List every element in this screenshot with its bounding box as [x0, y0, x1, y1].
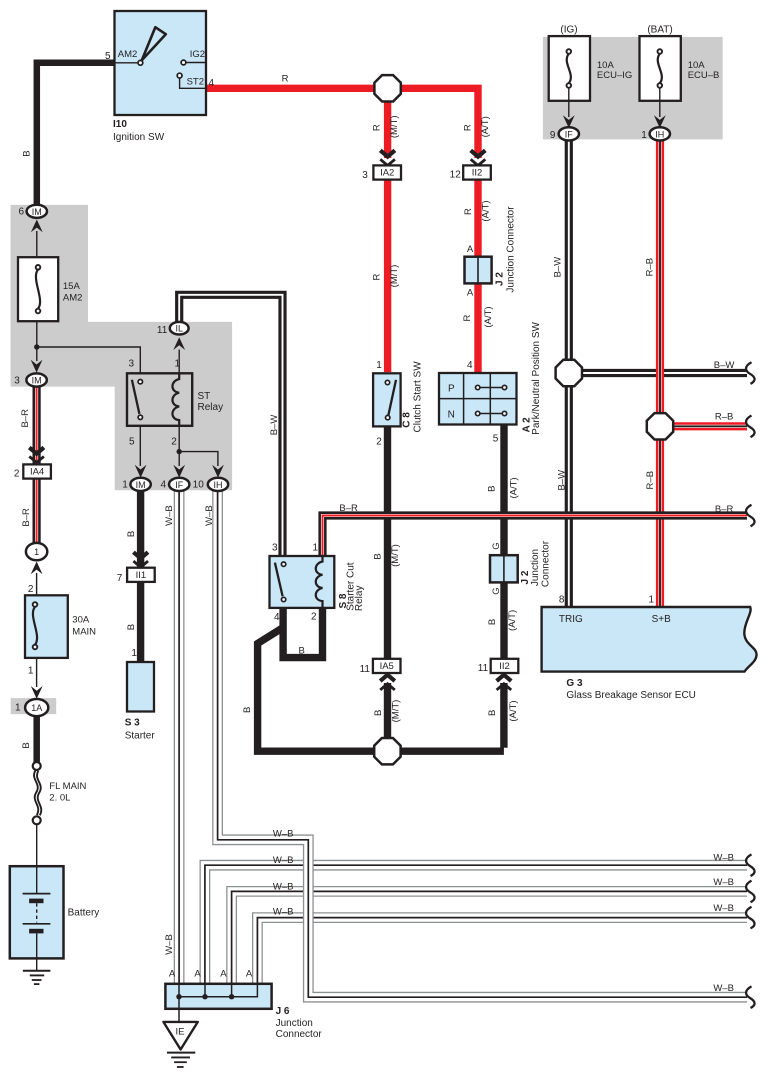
wire label R M/T upper	[372, 115, 400, 138]
svg-text:5: 5	[129, 436, 135, 447]
wire R J2 upper to A2 pin 4	[474, 283, 481, 372]
fuse 10A ECU-B element	[658, 49, 663, 88]
svg-text:MAIN: MAIN	[72, 626, 96, 637]
svg-text:R: R	[462, 314, 473, 321]
svg-text:3: 3	[272, 543, 278, 554]
chevron arrows from II2 lower	[497, 675, 512, 690]
arrow into IH1	[654, 115, 666, 128]
wire B-R IM3 to IA4	[32, 386, 40, 466]
svg-text:2. 0L: 2. 0L	[49, 793, 70, 804]
svg-text:(M/T): (M/T)	[391, 700, 402, 723]
svg-text:R: R	[463, 208, 474, 215]
svg-text:IM: IM	[32, 376, 42, 386]
wire label B (IM1)	[126, 531, 137, 537]
arrow into connector 1	[31, 562, 43, 575]
S8 relay coil	[316, 556, 323, 608]
wire B IM1 to II1	[137, 489, 144, 568]
battery ground lead	[36, 958, 38, 970]
svg-text:B–W: B–W	[269, 415, 280, 436]
svg-text:C 8: C 8	[402, 412, 413, 428]
break symbol W-B 3	[746, 907, 755, 929]
label S8	[338, 562, 365, 611]
text ST2	[187, 77, 204, 88]
svg-text:1: 1	[648, 594, 654, 605]
text S+B	[652, 614, 672, 625]
connector circle 1	[26, 543, 47, 560]
break symbol B-W	[746, 362, 755, 384]
svg-text:4: 4	[160, 479, 166, 490]
svg-text:N: N	[448, 409, 455, 420]
node ST relay pin 2 branch	[177, 449, 182, 454]
svg-text:10: 10	[193, 479, 205, 490]
pin label 5 (I10 AM2)	[105, 51, 111, 62]
wire 15A AM2 fuse feed (IM6 to fuse)	[36, 231, 38, 258]
svg-text:ECU–B: ECU–B	[688, 70, 720, 81]
wire B from I10 AM2 to IM6	[37, 63, 116, 204]
pin label 1 (IM)	[122, 479, 128, 490]
svg-text:(M/T): (M/T)	[389, 115, 400, 138]
ST relay switch contact top	[138, 380, 142, 384]
chevron arrows into IA2	[380, 150, 395, 165]
I10 switch lever	[142, 27, 166, 60]
connector oval IM (pin 3)	[26, 373, 46, 386]
wire B A2 pin 5 to J2 lower	[500, 424, 507, 556]
svg-text:(A/T): (A/T)	[480, 116, 491, 137]
svg-text:5: 5	[105, 51, 111, 62]
wire label B M/T (IA5 lower)	[373, 700, 402, 723]
junction block J/B No.1 gray background (left)	[11, 205, 233, 490]
pin label 2 (30A MAIN)	[28, 584, 34, 595]
ST relay box	[127, 373, 192, 426]
pin label 3 (IA2)	[362, 170, 368, 181]
J6 node pin 2	[202, 994, 207, 999]
connector oval IH (pin 10)	[208, 478, 228, 491]
svg-text:IG2: IG2	[190, 49, 205, 60]
chevron arrows into II1	[133, 552, 148, 567]
wire label W-B right 4	[713, 983, 734, 994]
pin label 2 (ST relay)	[171, 436, 177, 447]
label J2 upper	[495, 206, 517, 293]
junction octagon on R-B wire	[647, 413, 673, 439]
svg-text:R: R	[282, 73, 289, 84]
label J6	[276, 1006, 323, 1040]
pin label 10 (IH)	[193, 479, 205, 490]
starter S3 box	[127, 662, 154, 712]
fusible link FL MAIN element	[34, 771, 41, 816]
svg-text:IA5: IA5	[380, 661, 394, 672]
svg-text:IH: IH	[655, 129, 664, 139]
svg-text:Relay: Relay	[198, 402, 224, 413]
wire B-W branch to right margin	[569, 369, 747, 377]
svg-text:(A/T): (A/T)	[509, 477, 520, 498]
label A (J6 pin 1)	[169, 969, 176, 980]
wire node to ST relay pin 3	[37, 347, 141, 373]
svg-text:R–B: R–B	[645, 471, 656, 489]
wire label R-B upper	[644, 258, 655, 276]
wire label W-B (IF upper)	[164, 505, 175, 526]
arrow into IH10	[212, 465, 224, 478]
svg-text:(A/T): (A/T)	[507, 610, 518, 631]
svg-text:A: A	[169, 969, 176, 980]
fuse 15A AM2 box	[18, 257, 58, 321]
svg-text:W–B: W–B	[204, 505, 215, 526]
svg-text:II2: II2	[472, 168, 483, 179]
ST relay coil	[172, 373, 179, 426]
connector oval IM (pin 1)	[130, 478, 150, 491]
wire B J2 lower to II2	[500, 582, 507, 660]
pin label 2 (IA4)	[14, 468, 20, 479]
wire label B A/T (below J2)	[487, 610, 518, 631]
svg-text:I10: I10	[113, 119, 127, 130]
engine room J/B gray background (top right)	[543, 37, 723, 139]
svg-text:B: B	[487, 710, 498, 716]
svg-text:R: R	[462, 124, 473, 131]
label fuse 10A ECU-B	[688, 60, 720, 81]
svg-text:W–B: W–B	[164, 934, 175, 955]
svg-text:2: 2	[14, 468, 20, 479]
svg-text:A: A	[220, 969, 227, 980]
ST relay switch blade	[132, 380, 140, 414]
connector box II1 (pin 7)	[127, 568, 155, 582]
ST relay pin 5 lead	[139, 426, 141, 466]
fuse 30A MAIN box	[25, 595, 68, 658]
pin label 5 (A2)	[493, 433, 499, 444]
svg-text:J 6: J 6	[276, 1006, 290, 1017]
svg-text:2: 2	[376, 436, 382, 447]
svg-text:B: B	[373, 553, 384, 559]
A2 P contact	[476, 385, 507, 389]
wire W-B from IF to J6 pin 1	[174, 489, 185, 984]
svg-text:1: 1	[28, 666, 34, 677]
svg-text:1: 1	[174, 359, 180, 370]
pin label 1 (30A MAIN)	[28, 666, 34, 677]
I10 AM2 contact circle	[138, 60, 143, 65]
arrow into IF4	[173, 465, 185, 478]
svg-text:A: A	[246, 969, 253, 980]
pin label 5 (ST relay)	[129, 436, 135, 447]
svg-text:4: 4	[209, 78, 215, 89]
label fuse 30A MAIN	[72, 615, 96, 638]
A2 internal grid	[439, 373, 517, 425]
wire label B-W (right)	[714, 360, 735, 371]
svg-text:II2: II2	[499, 661, 510, 672]
wire B-R IA4 to connector 1	[32, 477, 40, 544]
svg-text:R–B: R–B	[644, 258, 655, 276]
connector box II2 lower (pin 11)	[491, 659, 519, 673]
break symbol B-R	[746, 505, 755, 527]
junction connector J2 box (lower)	[490, 555, 518, 582]
svg-text:S+B: S+B	[652, 614, 672, 625]
fuse 10A ECU-IG lead	[568, 88, 570, 117]
svg-text:11: 11	[478, 663, 489, 674]
battery negative lead	[36, 933, 38, 958]
pin label 11 (IA5)	[360, 664, 371, 675]
wire label B (II1-S3)	[126, 624, 137, 630]
wire B II1 to S3 starter	[137, 582, 144, 662]
wire B-W IL to S8 pin 3	[179, 295, 282, 555]
wire B S8 pin 4 loop to pin 2	[283, 607, 322, 658]
wire R branch down to IA2	[384, 88, 391, 158]
svg-text:30A: 30A	[72, 615, 90, 626]
svg-text:A: A	[467, 244, 474, 255]
svg-text:B–R: B–R	[21, 508, 32, 527]
svg-text:1A: 1A	[31, 703, 42, 713]
svg-text:II1: II1	[136, 570, 147, 581]
svg-text:TRIG: TRIG	[559, 614, 583, 625]
wire label R A/T mid	[462, 306, 494, 327]
wire B-W ECU-IG fuse IF to G3 TRIG	[565, 140, 573, 606]
svg-text:5: 5	[493, 433, 499, 444]
wire label R A/T upper	[462, 116, 491, 137]
svg-text:Connector: Connector	[540, 540, 551, 587]
pin label 4 (S8)	[274, 612, 280, 623]
J6 to IE ground lead	[178, 997, 180, 1022]
label A (J2 upper bottom)	[467, 288, 474, 299]
A2 N contact	[476, 411, 507, 415]
svg-text:B: B	[487, 619, 498, 625]
battery ground symbol	[23, 971, 51, 984]
ST relay pin1 lead to IL	[178, 350, 180, 374]
svg-text:W–B: W–B	[713, 983, 734, 994]
wire label W-B (IH upper)	[204, 505, 215, 526]
wire label B-R lower	[21, 508, 32, 527]
wire label R M/T mid	[372, 265, 400, 288]
fuse 10A ECU-B box	[640, 36, 681, 101]
ST relay switch contact bottom	[138, 415, 142, 419]
ignition switch I10 box	[115, 11, 207, 115]
wire R from I10 ST2 to junction and II2	[205, 88, 478, 158]
pin label 1 (S8)	[312, 543, 318, 554]
label A2	[522, 321, 542, 434]
pin label 4 (IF)	[160, 479, 166, 490]
svg-text:IH: IH	[214, 480, 223, 490]
wire label W-B right 3	[713, 903, 734, 914]
label A (J2 upper top)	[467, 244, 474, 255]
svg-text:S 3: S 3	[125, 717, 140, 728]
svg-text:B: B	[486, 486, 497, 492]
wire label W-B right 1	[713, 852, 734, 863]
svg-text:R–B: R–B	[715, 412, 733, 423]
svg-text:W–B: W–B	[713, 877, 734, 888]
wire label W-B elbow 4	[273, 907, 294, 918]
wire label B (S8 loop)	[299, 645, 305, 656]
pin label 1 (S3)	[131, 648, 137, 659]
wire W-B from IH to right margin (bottom)	[218, 489, 747, 997]
svg-text:W–B: W–B	[164, 505, 175, 526]
label (BAT)	[647, 24, 672, 35]
svg-text:2: 2	[171, 436, 177, 447]
wire label B A/T (II2 lower)	[487, 700, 519, 721]
C8 switch contact bottom	[386, 415, 390, 419]
svg-text:IA4: IA4	[30, 467, 44, 478]
svg-text:3: 3	[128, 359, 134, 370]
label ST Relay	[198, 391, 224, 413]
ground triangle IE	[163, 1022, 197, 1050]
connector box IA2 (pin 3)	[373, 165, 401, 179]
text TRIG	[559, 614, 583, 625]
break symbol R-B	[746, 416, 755, 438]
label J2 lower	[520, 540, 551, 587]
S8 relay switch contact top	[281, 562, 285, 566]
wire branch to IH	[179, 452, 218, 466]
connector oval IH (pin 1)	[650, 127, 670, 140]
svg-text:FL MAIN: FL MAIN	[49, 781, 86, 792]
connector box IA5 (pin 11)	[373, 659, 401, 673]
wire label B-W (IL wire)	[269, 415, 280, 436]
svg-text:(M/T): (M/T)	[390, 544, 401, 567]
svg-text:Clutch Start SW: Clutch Start SW	[413, 361, 424, 433]
label G (J2 lower top)	[491, 542, 502, 549]
fuse 10A ECU-IG box	[549, 36, 590, 101]
svg-text:IM: IM	[32, 207, 42, 217]
label C8	[402, 361, 424, 433]
pin label 7 (II1)	[117, 573, 123, 584]
connector box IA4 (pin 2)	[23, 464, 51, 478]
wire R-B ECU-B fuse IH to G3 S+B	[656, 140, 664, 606]
svg-text:B–W: B–W	[714, 360, 735, 371]
park/neutral position switch A2 box	[439, 373, 517, 425]
svg-text:R: R	[372, 124, 383, 131]
svg-text:B: B	[126, 624, 137, 630]
fuse 10A ECU-B lead	[659, 88, 661, 117]
pin label 1 (C8)	[376, 360, 382, 371]
wire R IA2 to C8 pin 1	[384, 179, 391, 372]
break symbol W-B 1	[746, 854, 755, 876]
pin label 1 (G3)	[648, 594, 654, 605]
svg-text:A: A	[467, 288, 474, 299]
battery plate long 1	[23, 893, 51, 895]
I10 IG2 lead	[186, 62, 206, 64]
pin label 12 (II2)	[450, 169, 462, 180]
svg-text:ST2: ST2	[187, 77, 204, 88]
wire B IA5 to junction	[384, 683, 391, 751]
svg-text:(A/T): (A/T)	[483, 306, 494, 327]
svg-text:W–B: W–B	[273, 829, 294, 840]
wire W-B from right margin to J6 pin 2	[205, 865, 747, 984]
battery plate short 2	[29, 929, 43, 934]
label Battery	[68, 907, 100, 918]
junction octagon on R wire	[374, 75, 400, 101]
svg-text:3: 3	[14, 376, 20, 387]
svg-text:9: 9	[550, 130, 556, 141]
arrow into IM6	[31, 220, 43, 233]
chevron arrows into IA4	[29, 448, 44, 463]
wire label B M/T (C8 trunk)	[373, 544, 402, 567]
arrow into IL	[173, 337, 185, 350]
text IG2	[190, 49, 205, 60]
wire label W-B elbow 3	[273, 881, 294, 892]
chevron arrows into II2 upper	[471, 150, 486, 165]
wire label R top	[282, 73, 289, 84]
svg-text:IM: IM	[136, 480, 146, 490]
battery box	[10, 866, 64, 958]
svg-text:7: 7	[117, 573, 123, 584]
svg-text:B–W: B–W	[556, 470, 567, 491]
wire B II2 to junction elbow	[500, 683, 507, 748]
I10 ST2 contact circle	[177, 73, 182, 78]
svg-text:(IG): (IG)	[560, 24, 577, 35]
junction connector J6 box	[165, 984, 271, 1009]
wire B-R S8 pin 1 to right margin	[323, 516, 748, 558]
I10 IG2 contact circle	[181, 60, 186, 65]
svg-text:Junction Connector: Junction Connector	[506, 206, 517, 293]
J6 internal bus	[179, 984, 257, 997]
wire label W-B (IF lower)	[164, 934, 175, 955]
wire 30A MAIN to 1A	[36, 658, 38, 687]
text AM2	[118, 49, 138, 60]
svg-text:G: G	[491, 542, 502, 549]
wire B C8 pin 2 to IA5	[384, 426, 391, 661]
wire B S8 pin 4 branch to bottom trunk	[258, 628, 504, 752]
ST relay pin 2 lead	[178, 426, 180, 466]
svg-text:1: 1	[15, 703, 21, 714]
wire B 1A to fusible link	[33, 716, 40, 763]
pin label 9 (IF)	[550, 130, 556, 141]
junction octagon on B trunk	[374, 738, 400, 764]
arrow into 1A	[31, 686, 43, 699]
svg-text:B: B	[126, 531, 137, 537]
svg-text:W–B: W–B	[273, 855, 294, 866]
svg-text:4: 4	[467, 360, 473, 371]
pin label 3 (S8)	[272, 543, 278, 554]
pin label 1 (1A)	[15, 703, 21, 714]
wire label B (S8 trunk)	[242, 707, 253, 713]
pin label 4 (I10 ST2)	[209, 78, 215, 89]
svg-text:Battery: Battery	[68, 907, 100, 918]
svg-text:AM2: AM2	[118, 49, 138, 60]
junction connector J2 box (upper)	[465, 257, 492, 284]
pin label 4 (A2)	[467, 360, 473, 371]
svg-text:G 3: G 3	[566, 678, 583, 689]
IE ground symbol	[167, 1053, 195, 1067]
connector oval IF (pin 9)	[559, 127, 579, 140]
label FL MAIN	[49, 781, 86, 804]
fuse 10A ECU-IG element	[567, 49, 572, 88]
glass breakage sensor ECU G3 box	[542, 607, 757, 672]
svg-text:(BAT): (BAT)	[647, 24, 672, 35]
pin label 3 (ST relay)	[128, 359, 134, 370]
svg-text:A: A	[194, 969, 201, 980]
svg-text:2: 2	[311, 611, 317, 622]
pin label 2 (S8)	[311, 611, 317, 622]
battery plate long 2	[23, 923, 51, 925]
S8 relay switch contact bottom	[281, 597, 285, 601]
svg-text:W–B: W–B	[273, 881, 294, 892]
svg-text:1: 1	[641, 130, 647, 141]
wire fuse to junction node	[36, 321, 38, 361]
svg-text:R: R	[372, 273, 383, 280]
svg-text:Glass Breakage Sensor ECU: Glass Breakage Sensor ECU	[566, 690, 696, 701]
pin label 11 (II2 lower)	[478, 663, 489, 674]
chevron arrows from IA5	[380, 675, 395, 690]
connector oval 1A	[25, 699, 48, 716]
junction octagon on B-W wire	[556, 360, 582, 386]
svg-text:12: 12	[450, 169, 462, 180]
label (IG)	[560, 24, 577, 35]
wire label B A/T (A2 trunk)	[486, 477, 519, 498]
svg-text:W–B: W–B	[273, 907, 294, 918]
S8 relay switch blade	[275, 563, 283, 597]
connector oval IM (pin 6)	[27, 205, 47, 218]
svg-text:1: 1	[312, 543, 318, 554]
connector box II2 (pin 12)	[463, 165, 491, 179]
svg-text:(M/T): (M/T)	[389, 265, 400, 288]
wire label R-B lower	[645, 471, 656, 489]
battery plate short 1	[29, 899, 43, 904]
connector oval IL (pin 11)	[170, 322, 189, 335]
svg-text:1: 1	[122, 479, 128, 490]
wire label B (AM2 wire)	[21, 150, 32, 156]
